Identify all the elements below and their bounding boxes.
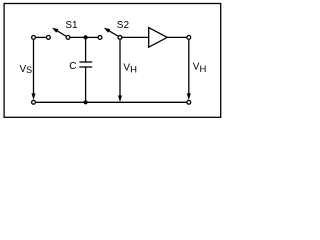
node: S2 throw contact	[98, 36, 102, 40]
voltage arrow VH output (right, pointing down)	[187, 40, 191, 100]
switch S2 (open blade with arrowhead)	[104, 28, 119, 37]
svg-text:S1: S1	[65, 20, 78, 31]
junction: top node (S1/C/S2)	[84, 35, 88, 39]
node: buffer output terminal VH	[187, 36, 191, 40]
wire: capacitor top lead	[85, 37, 87, 62]
node: S1 throw contact	[47, 36, 51, 40]
junction: bottom node (C to bottom rail)	[84, 100, 88, 104]
node: S1 pole	[66, 36, 70, 40]
voltage arrow VS (left, pointing down)	[32, 40, 36, 100]
wire: S1 pole to top junction	[68, 36, 86, 38]
wire: S2 pole to buffer input	[120, 36, 149, 38]
op-amp buffer (unity-gain follower triangle)	[149, 28, 168, 48]
wire: buffer output to VH terminal	[167, 36, 189, 38]
wire: capacitor bottom lead	[85, 67, 87, 102]
node: S2 pole	[118, 36, 122, 40]
wire: bottom rail	[34, 101, 189, 103]
capacitor C (plates)	[79, 62, 92, 67]
svg-text:C: C	[69, 61, 76, 72]
wire: top junction to S2 throw contact	[86, 36, 100, 38]
voltage arrow VH across capacitor (pointing down)	[118, 40, 122, 102]
node: VS+ input terminal	[32, 36, 36, 40]
switch S1 (open blade with arrowhead)	[52, 28, 67, 37]
node: VS- terminal (bottom left)	[32, 100, 36, 104]
svg-text:S2: S2	[117, 20, 130, 31]
svg-text:VH: VH	[123, 63, 137, 76]
svg-text:VS: VS	[20, 64, 33, 75]
node: VH- terminal (bottom right)	[187, 100, 191, 104]
wire top-left: VS+ terminal to S1 throw contact	[34, 36, 49, 38]
